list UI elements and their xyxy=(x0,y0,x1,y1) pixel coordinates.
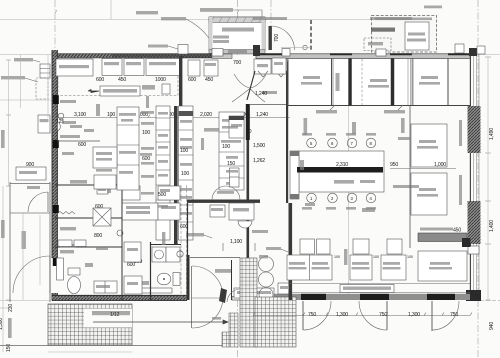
dining small labels row2 xyxy=(302,207,312,210)
svg-text:1,240: 1,240 xyxy=(255,91,267,97)
canopy label2 xyxy=(213,36,229,39)
pantry door label xyxy=(217,191,234,194)
outdoor unit top text row xyxy=(375,18,432,21)
left wall xyxy=(52,50,58,258)
svg-text:100: 100 xyxy=(334,255,340,259)
canopy label above xyxy=(200,8,233,12)
partition x410 xyxy=(409,106,411,248)
room h line y218 xyxy=(55,217,122,219)
tables band bottom line xyxy=(288,105,470,107)
svg-text:600: 600 xyxy=(142,156,150,162)
svg-text:450: 450 xyxy=(118,77,126,83)
extra kitchen-left labels xyxy=(62,121,76,124)
T4 xyxy=(418,251,467,281)
vertical dim extension x140 top xyxy=(110,0,112,20)
tarrap box xyxy=(40,64,50,78)
table B xyxy=(411,173,447,215)
top text row porch xyxy=(253,17,287,20)
T2 xyxy=(350,255,372,280)
leader label 1 xyxy=(316,110,337,113)
grid G2 step1 xyxy=(229,313,238,347)
mat label box bottom center xyxy=(234,288,274,298)
vestibule big door arc xyxy=(192,266,223,328)
wc label xyxy=(85,263,93,267)
entry door leaf xyxy=(247,71,255,100)
canopy bottom band xyxy=(209,50,265,54)
vert dim smudge 2 xyxy=(401,118,405,133)
vestibule top line xyxy=(190,257,240,259)
toilet3 tank xyxy=(68,268,80,275)
ramp center line xyxy=(39,215,41,285)
leader label 2 xyxy=(384,110,405,113)
grab bar box xyxy=(57,258,64,280)
rotated 750 near WC xyxy=(162,232,165,245)
grid G1 xyxy=(48,304,132,345)
fix counter sink semicircle xyxy=(238,221,252,228)
room v line x122 xyxy=(121,185,123,300)
svg-text:100: 100 xyxy=(142,130,150,136)
toilet3 bowl xyxy=(68,277,81,294)
faint lower band xyxy=(48,351,132,353)
colB labels xyxy=(180,120,192,123)
desk box office xyxy=(93,147,117,168)
right outside dim ticks xyxy=(487,57,489,300)
svg-text:60: 60 xyxy=(246,129,252,135)
entry door arcs xyxy=(234,74,250,88)
canopy top hatch band xyxy=(209,17,265,23)
svg-text:450: 450 xyxy=(453,228,461,234)
room h line y185 xyxy=(55,184,122,186)
grid G2 step2 xyxy=(222,332,229,347)
left label 2 xyxy=(1,76,25,79)
vert dim smudge 1 xyxy=(304,118,308,135)
partition hatched y200 xyxy=(187,200,260,203)
porch door panel xyxy=(269,26,272,50)
svg-text:100: 100 xyxy=(222,144,230,150)
dining bottom wall band xyxy=(253,294,470,300)
right wall top corner white box xyxy=(477,46,485,54)
partition kitchen/pantry xyxy=(179,56,182,115)
roll screen dark block 2 xyxy=(360,294,389,300)
G1 white band xyxy=(84,309,132,328)
ramp outer line xyxy=(9,182,11,302)
svg-text:100: 100 xyxy=(181,171,189,177)
column block right xyxy=(462,238,471,247)
counter stools top xyxy=(307,138,317,148)
equipment column C xyxy=(219,112,244,190)
bench label xyxy=(420,228,453,231)
label smudge top2 xyxy=(161,17,186,20)
toilet 1 bowl xyxy=(157,273,171,285)
separator thin lines xyxy=(288,59,448,105)
svg-text:100: 100 xyxy=(107,112,115,118)
kitchen label xyxy=(142,85,155,90)
ramp left dim line xyxy=(2,186,4,352)
planter circles xyxy=(259,257,274,272)
FIX box xyxy=(229,203,254,220)
grease trap label box xyxy=(100,86,140,96)
left rotated dim smudges xyxy=(1,130,5,148)
outdoor unit small dashed rect xyxy=(364,38,391,51)
top wall gray band entry xyxy=(212,54,232,58)
colB dark cap xyxy=(179,111,194,116)
bottom dim row dining xyxy=(253,315,470,317)
room box right xyxy=(158,203,180,220)
top wall dining dark segs xyxy=(256,53,470,55)
top text row right xyxy=(370,17,412,20)
right wall bottom corner block xyxy=(466,290,481,301)
svg-text:600: 600 xyxy=(96,77,104,83)
outdoor unit dashed box outer xyxy=(372,16,437,53)
terrace door arc 2 xyxy=(359,301,387,330)
right inner rotated smudges xyxy=(459,120,462,146)
canopy side hatch right xyxy=(262,17,266,51)
left boundary line x20 xyxy=(20,55,22,108)
circled 2 left xyxy=(117,230,123,236)
svg-text:100: 100 xyxy=(407,255,413,259)
right column tables: table A xyxy=(411,124,447,167)
mat label smudge xyxy=(237,291,271,294)
vertical centerline x478 xyxy=(477,0,479,358)
bottom wall kitchen dark band xyxy=(52,295,187,300)
canopy leader xyxy=(233,10,262,17)
line above bottom band xyxy=(289,283,470,285)
canopy bottom label xyxy=(228,50,247,53)
vestibule label xyxy=(215,269,231,273)
svg-text:150: 150 xyxy=(227,161,235,167)
hanging cabinet box xyxy=(229,116,244,138)
corridor step line xyxy=(249,104,286,106)
hood dashed outline xyxy=(58,58,178,96)
stub box on wall x376 xyxy=(376,49,386,56)
vertical centerline x237.5 top xyxy=(237,0,239,55)
mid wall between columns xyxy=(174,106,178,245)
vertical light line x348 through dining xyxy=(348,55,350,300)
R3 xyxy=(352,59,392,106)
porch door arc xyxy=(270,26,295,50)
right wall window lines xyxy=(470,50,479,300)
shelf box xyxy=(278,283,290,294)
svg-text:600: 600 xyxy=(180,224,188,230)
svg-text:150: 150 xyxy=(6,344,12,352)
svg-text:700: 700 xyxy=(233,60,241,66)
slope arrow xyxy=(93,320,228,324)
corridor handwash box xyxy=(230,168,240,187)
vanity box xyxy=(94,281,117,293)
changing room label xyxy=(70,180,87,184)
terrace door arc 3 xyxy=(432,301,459,330)
shelf with cross xyxy=(93,208,111,226)
koshikabe leader xyxy=(393,185,419,188)
svg-text:1,000: 1,000 xyxy=(434,162,446,168)
svg-text:1,300: 1,300 xyxy=(0,318,4,330)
WC label xyxy=(140,281,149,285)
canopy label xyxy=(222,28,254,32)
kitchen niche line xyxy=(57,140,100,142)
room box kaisoku xyxy=(122,203,158,220)
rollscreen label text xyxy=(343,287,391,290)
circled 2 xyxy=(177,251,183,257)
ramp door arc xyxy=(28,192,48,212)
right window dark block 2 xyxy=(468,201,481,244)
svg-text:1,490: 1,490 xyxy=(489,128,495,140)
intake label xyxy=(148,45,168,48)
room h line y247 xyxy=(55,246,122,248)
dining bottom thin line upper xyxy=(290,292,470,294)
vertical centerline x55 xyxy=(54,0,56,118)
counter stools bottom xyxy=(307,193,317,203)
porch circle marker xyxy=(303,45,307,49)
R5 xyxy=(413,59,448,106)
safe box xyxy=(97,186,108,194)
equip box 2 xyxy=(102,59,122,76)
counter label xyxy=(334,180,354,184)
left rotated text 2 xyxy=(8,318,12,338)
equip box 4 xyxy=(146,59,180,76)
ramp inner line xyxy=(49,182,51,302)
wall stub box top right xyxy=(455,44,464,53)
small box left of FIX xyxy=(210,205,225,217)
bottom wall piece vestibule right xyxy=(232,297,253,301)
left wall junction 3 xyxy=(53,205,59,213)
circled wall marker xyxy=(58,113,64,119)
left wall junction 1 xyxy=(53,95,59,104)
svg-text:100: 100 xyxy=(180,148,188,154)
baseline left of building y300 xyxy=(0,300,54,302)
equip box ceiling unit xyxy=(56,59,93,76)
left wall junction 4 xyxy=(53,258,59,266)
extra colC labels2 xyxy=(222,126,238,129)
right wall main line xyxy=(470,56,472,300)
roll screen dark block 3 xyxy=(427,294,455,300)
bottom left tick line xyxy=(0,307,8,309)
counter dark top xyxy=(297,167,383,173)
vestibule small arc xyxy=(219,288,227,303)
right window dark block 1 xyxy=(468,106,481,153)
office desk boxes xyxy=(124,242,141,262)
line y168 xyxy=(390,168,456,170)
svg-text:600: 600 xyxy=(188,77,196,83)
dashdot x271 top xyxy=(270,0,272,24)
strip R4 xyxy=(394,59,412,106)
svg-text:2,020: 2,020 xyxy=(200,112,212,118)
dining left wall lower xyxy=(289,203,293,300)
box below desk xyxy=(94,175,116,189)
boxes above y185-203 xyxy=(122,186,140,200)
pantry label xyxy=(204,128,219,132)
grid G2 col1 xyxy=(240,258,257,347)
colA labels xyxy=(141,111,154,114)
svg-text:600: 600 xyxy=(127,262,135,268)
top extra ticks xyxy=(55,10,239,13)
ramp landing line xyxy=(10,212,50,214)
svg-text:1,240: 1,240 xyxy=(256,112,268,118)
svg-text:1/12: 1/12 xyxy=(110,312,120,318)
toilet 1 tank xyxy=(173,273,180,286)
G1 bottom line xyxy=(0,345,237,347)
vertical dim smudges kitchen xyxy=(146,96,149,108)
niche label xyxy=(60,135,80,138)
G2 arrow label xyxy=(212,317,221,320)
counter left cap xyxy=(290,151,299,199)
bottom tables T1 xyxy=(287,255,332,280)
top wall left band xyxy=(52,54,212,58)
washer box outside xyxy=(38,115,50,133)
corridor right wall xyxy=(286,62,288,203)
vertical centerline x237.5 bottom xyxy=(237,300,239,358)
vert dim smudge center bottom xyxy=(344,249,347,265)
shoe cabinet label xyxy=(186,233,204,236)
chair squares bottom row xyxy=(300,239,315,254)
line y100 outside xyxy=(0,99,52,101)
hand wash box on partition xyxy=(162,84,170,94)
svg-text:100: 100 xyxy=(373,255,379,259)
corridor dashed lines xyxy=(180,185,182,300)
kitchen mid-left column col0 xyxy=(117,107,139,190)
office label xyxy=(60,250,74,253)
porch dashed centerline xyxy=(310,20,312,50)
jamb block entry left xyxy=(253,45,260,56)
dining misc labels xyxy=(398,137,410,140)
dim line kitchen xyxy=(55,117,290,119)
washer pair xyxy=(152,247,166,262)
svg-text:750: 750 xyxy=(308,312,316,318)
svg-text:1,300: 1,300 xyxy=(336,312,348,318)
svg-text:3,100: 3,100 xyxy=(74,112,86,118)
svg-text:700: 700 xyxy=(274,34,280,42)
dining small labels row1 xyxy=(302,133,312,136)
ramp entry door arc xyxy=(13,256,50,293)
shoe box top 2 xyxy=(275,59,287,71)
canopy box outer xyxy=(209,17,265,51)
curtain zigzag xyxy=(57,212,75,215)
left wall junction 2 xyxy=(53,140,59,148)
vestibule bottom room walls xyxy=(187,203,189,255)
WC counter row xyxy=(140,288,172,293)
small boxes top-left dining xyxy=(272,58,286,74)
outside left small box xyxy=(16,167,46,180)
terrace door arc 1 xyxy=(303,301,331,330)
equip box 6 pantry xyxy=(204,60,218,76)
grid G2 col2 xyxy=(255,297,296,347)
svg-text:500: 500 xyxy=(158,192,166,198)
svg-text:1,262: 1,262 xyxy=(253,158,265,164)
inner wall h y245 xyxy=(150,244,181,246)
right wall top corner block xyxy=(469,48,477,56)
canopy side hatch left xyxy=(209,17,213,51)
colC labels xyxy=(222,119,240,122)
separator dark 2 xyxy=(391,59,394,106)
svg-text:1,400: 1,400 xyxy=(489,220,495,232)
svg-text:750: 750 xyxy=(379,312,387,318)
grease trap arrow xyxy=(88,89,99,92)
corridor left wall xyxy=(247,104,250,300)
office bottom box xyxy=(124,276,142,294)
left dim ticks xyxy=(6,60,11,300)
svg-text:800: 800 xyxy=(94,233,102,239)
shoe box top 1 xyxy=(254,59,271,74)
svg-text:1000: 1000 xyxy=(155,77,166,83)
leader label left of planters xyxy=(252,230,268,233)
extra colA labels2 xyxy=(158,112,168,115)
inner wall v x150 xyxy=(150,242,152,300)
outdoor unit label1 xyxy=(371,28,395,32)
strip R2 xyxy=(333,59,349,106)
equipment column A xyxy=(156,106,170,240)
extra kitchen smudges xyxy=(62,152,74,155)
stub box on wall x282 xyxy=(282,49,290,57)
tarrap label xyxy=(14,58,33,61)
svg-text:1,300: 1,300 xyxy=(408,312,420,318)
horizontal datum line y22 xyxy=(0,19,375,21)
right wall cap box xyxy=(468,246,479,254)
ramp label vertical xyxy=(22,231,26,249)
box row above WC room xyxy=(58,240,72,247)
stub box on partition head xyxy=(178,45,188,55)
svg-text:230: 230 xyxy=(8,304,14,312)
stub box on wall x212 xyxy=(212,49,223,57)
svg-text:1,100: 1,100 xyxy=(230,239,242,245)
wall sink xyxy=(58,122,61,131)
equip box 3 xyxy=(124,59,144,76)
bath room labels xyxy=(60,244,76,247)
top wall dining hatched band xyxy=(256,54,470,59)
slope text xyxy=(92,311,130,315)
wardrobe label xyxy=(60,227,76,230)
outdoor unit tail label xyxy=(424,6,442,9)
leader label near planters xyxy=(266,247,281,250)
dining label xyxy=(362,208,375,212)
svg-text:450: 450 xyxy=(205,77,213,83)
rollscreen label box xyxy=(340,285,394,293)
pantry door arc xyxy=(212,186,240,200)
horizontal datum line y54.5 xyxy=(0,54,500,56)
gutter line left of wall xyxy=(47,55,49,118)
dashed ac box xyxy=(36,78,48,99)
svg-text:950: 950 xyxy=(390,162,398,168)
roll screen dark block 1 xyxy=(301,294,326,300)
svg-text:2,310: 2,310 xyxy=(336,162,348,168)
seat label under xyxy=(305,203,315,206)
outdoor unit inner rect xyxy=(405,22,429,50)
dashed baseline right bottom xyxy=(480,300,500,302)
equip box 5 pantry xyxy=(188,60,200,76)
landing label xyxy=(27,186,40,189)
T3 xyxy=(381,255,406,280)
dim ticks xyxy=(55,115,288,118)
counter outline xyxy=(299,151,384,192)
dim 1100 ticks xyxy=(223,243,255,251)
label smudge top1 xyxy=(136,11,158,14)
svg-text:600: 600 xyxy=(78,142,86,148)
planter label xyxy=(259,255,268,258)
svg-text:1,500: 1,500 xyxy=(253,143,265,149)
separator dark 1 xyxy=(349,59,352,106)
ramp top line xyxy=(10,183,50,185)
porch floor line xyxy=(281,47,311,49)
svg-text:940: 940 xyxy=(489,322,495,330)
top tables band R1 xyxy=(288,59,332,106)
equipment column B xyxy=(179,106,194,240)
corridor left wall hatch top xyxy=(246,104,250,140)
bench dark xyxy=(418,233,467,242)
